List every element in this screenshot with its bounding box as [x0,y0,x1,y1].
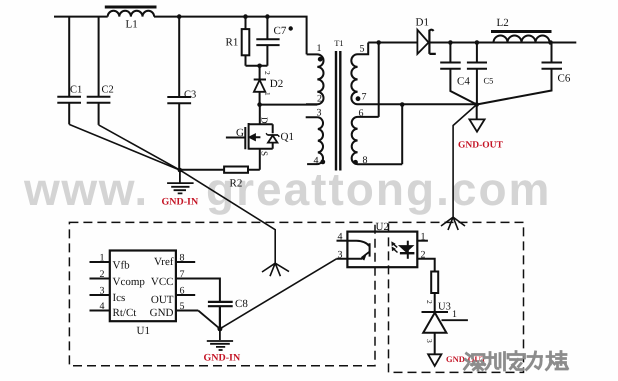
svg-text:8: 8 [363,155,368,166]
svg-text:OUT: OUT [151,294,174,306]
svg-text:1: 1 [452,309,457,320]
svg-text:G: G [236,127,244,139]
svg-text:R1: R1 [226,37,239,49]
svg-text:U3: U3 [438,302,451,313]
svg-text:Rt/Ct: Rt/Ct [113,307,137,319]
capacitor C2 [87,17,111,125]
optocoupler U2 box [347,232,417,268]
svg-text:C4: C4 [457,76,470,88]
svg-text:VCC: VCC [151,276,174,288]
svg-text:3: 3 [338,250,343,261]
svg-text:GND-OUT: GND-OUT [458,140,504,150]
wire ground node to crow-foot bend [180,170,275,263]
svg-text:4: 4 [100,301,105,312]
transistor Q1 mosfet [226,105,273,170]
svg-text:L1: L1 [126,19,138,31]
svg-text:7: 7 [180,269,185,280]
transformer T1 secondary top winding [351,43,476,105]
wire junction to GND-OUT triangle [476,105,478,120]
svg-text:3: 3 [100,286,105,297]
wire top input rail [54,17,307,55]
wire U2 pin2 to resistor [417,259,434,272]
svg-text:3: 3 [425,339,434,343]
wire pin6 tap [378,43,380,117]
svg-text:1: 1 [421,232,426,243]
svg-text:GND-IN: GND-IN [204,353,241,364]
svg-text:2: 2 [263,71,272,75]
capacitor C5 [467,43,487,105]
svg-text:C7: C7 [274,25,287,37]
inductor L2 [494,36,550,43]
ground triangle (feedback) [428,354,441,366]
resistor R2 [180,169,260,171]
crow foot (chassis spread) right [441,217,465,230]
watermark www.greattong.com [0,0,618,1]
svg-text:5: 5 [180,301,185,312]
svg-text:3: 3 [317,108,322,119]
resistor R1 [245,17,247,66]
junction dot pin7/pin8 [400,102,405,107]
svg-text:1: 1 [263,92,272,96]
svg-text:Ics: Ics [113,292,126,304]
wire pin8 up to pin7 line [401,105,403,165]
svg-text:Vfb: Vfb [113,260,131,272]
ground GND-IN (primary) [167,170,194,193]
svg-text:Q1: Q1 [281,131,294,143]
dot near C7 label [289,26,293,30]
dashed box left (control section) [69,222,375,365]
svg-text:5: 5 [360,44,365,55]
IC U1 box [110,251,176,322]
wire U1 VCC pin7 to C8 [176,279,220,302]
transformer T1 core [336,51,340,171]
svg-text:D1: D1 [416,17,429,29]
svg-text:1: 1 [317,43,322,54]
node output ground junction [474,102,479,107]
junction dot D2 bottom [257,102,262,107]
svg-text:C2: C2 [102,85,114,96]
svg-text:2: 2 [425,300,434,304]
inductor L1 [108,11,154,17]
svg-text:6: 6 [359,108,364,119]
svg-text:C6: C6 [558,73,571,85]
crow foot (chassis spread) left [262,263,289,276]
svg-text:8: 8 [180,253,185,264]
dashed box right (feedback section) [389,222,524,372]
U2 phototransistor [347,241,369,257]
svg-text:2: 2 [317,94,322,105]
svg-text:2: 2 [421,250,426,261]
capacitor C3 [167,17,191,171]
U2 pin4 lead [337,240,348,242]
svg-text:Vref: Vref [154,256,174,268]
svg-text:S: S [260,151,270,156]
svg-text:T1: T1 [334,38,343,48]
U2 pin1 lead [417,240,428,242]
svg-text:GND-IN: GND-IN [162,197,199,208]
svg-text:D: D [260,117,270,124]
svg-text:6: 6 [180,286,185,297]
wire R1/C7 bottom [246,65,268,67]
svg-text:C3: C3 [184,90,196,101]
U2 led emission arrows [393,243,398,252]
svg-text:4: 4 [338,232,343,243]
svg-text:4: 4 [314,156,319,167]
diode D2 (zener clamp) [254,66,266,105]
capacitor C1 [57,17,81,125]
svg-text:C8: C8 [235,298,248,310]
svg-text:U2: U2 [376,221,389,233]
T1 polarity dots [318,57,323,62]
shunt regulator U3 [422,312,449,354]
capacitor C6 [477,43,562,105]
svg-text:GND: GND [150,307,174,319]
svg-text:C5: C5 [484,76,494,86]
svg-text:C1: C1 [70,85,82,96]
svg-text:D2: D2 [270,78,283,90]
transformer T1 primary bottom winding [306,117,323,164]
U3 ref pin1 lead [442,319,468,321]
diode D1 [417,30,428,54]
svg-text:U1: U1 [137,325,150,337]
U1 left pin stubs 1-4 [90,262,110,311]
U2 led [407,241,409,259]
wire junction to crow foot right [453,105,477,218]
svg-text:R2: R2 [230,178,243,190]
wire C8 junction to U2 pin3 [220,259,337,329]
U1 right pin stubs 8,7,6,5 [176,262,198,311]
watermark Shenzhen Honglijie (CJK glyph approximation) [465,352,568,371]
wire D2 anode to T1 pin2 [260,104,318,106]
junction dots rail [177,14,182,19]
transformer T1 secondary bottom winding [352,117,403,164]
transformer T1 primary top winding [306,54,324,104]
capacitor C7 [256,17,279,66]
wire U1 GND pin5 to ground junction [198,311,220,329]
junction dot D2 top [257,64,262,69]
svg-text:2: 2 [100,269,105,280]
wire C1 to ground node [69,124,180,170]
node C8 ground junction [217,326,222,331]
U2 pin3 lead [337,258,363,260]
Q1 body diode [267,135,278,143]
ground GND-OUT open triangle [469,119,484,131]
svg-text:L2: L2 [497,17,509,29]
wire C2 to ground node [99,125,180,170]
resistor R3 (feedback) [431,272,438,294]
wire secondary rail [368,42,576,44]
capacitor C4 [440,43,477,105]
capacitor C8 [208,302,233,329]
ground GND-IN (control) [207,329,233,350]
svg-text:7: 7 [362,92,367,103]
junction dots secondary rail [376,40,381,45]
svg-text:1: 1 [100,253,105,264]
node primary ground junction [178,168,183,173]
svg-text:Vcomp: Vcomp [113,276,146,288]
